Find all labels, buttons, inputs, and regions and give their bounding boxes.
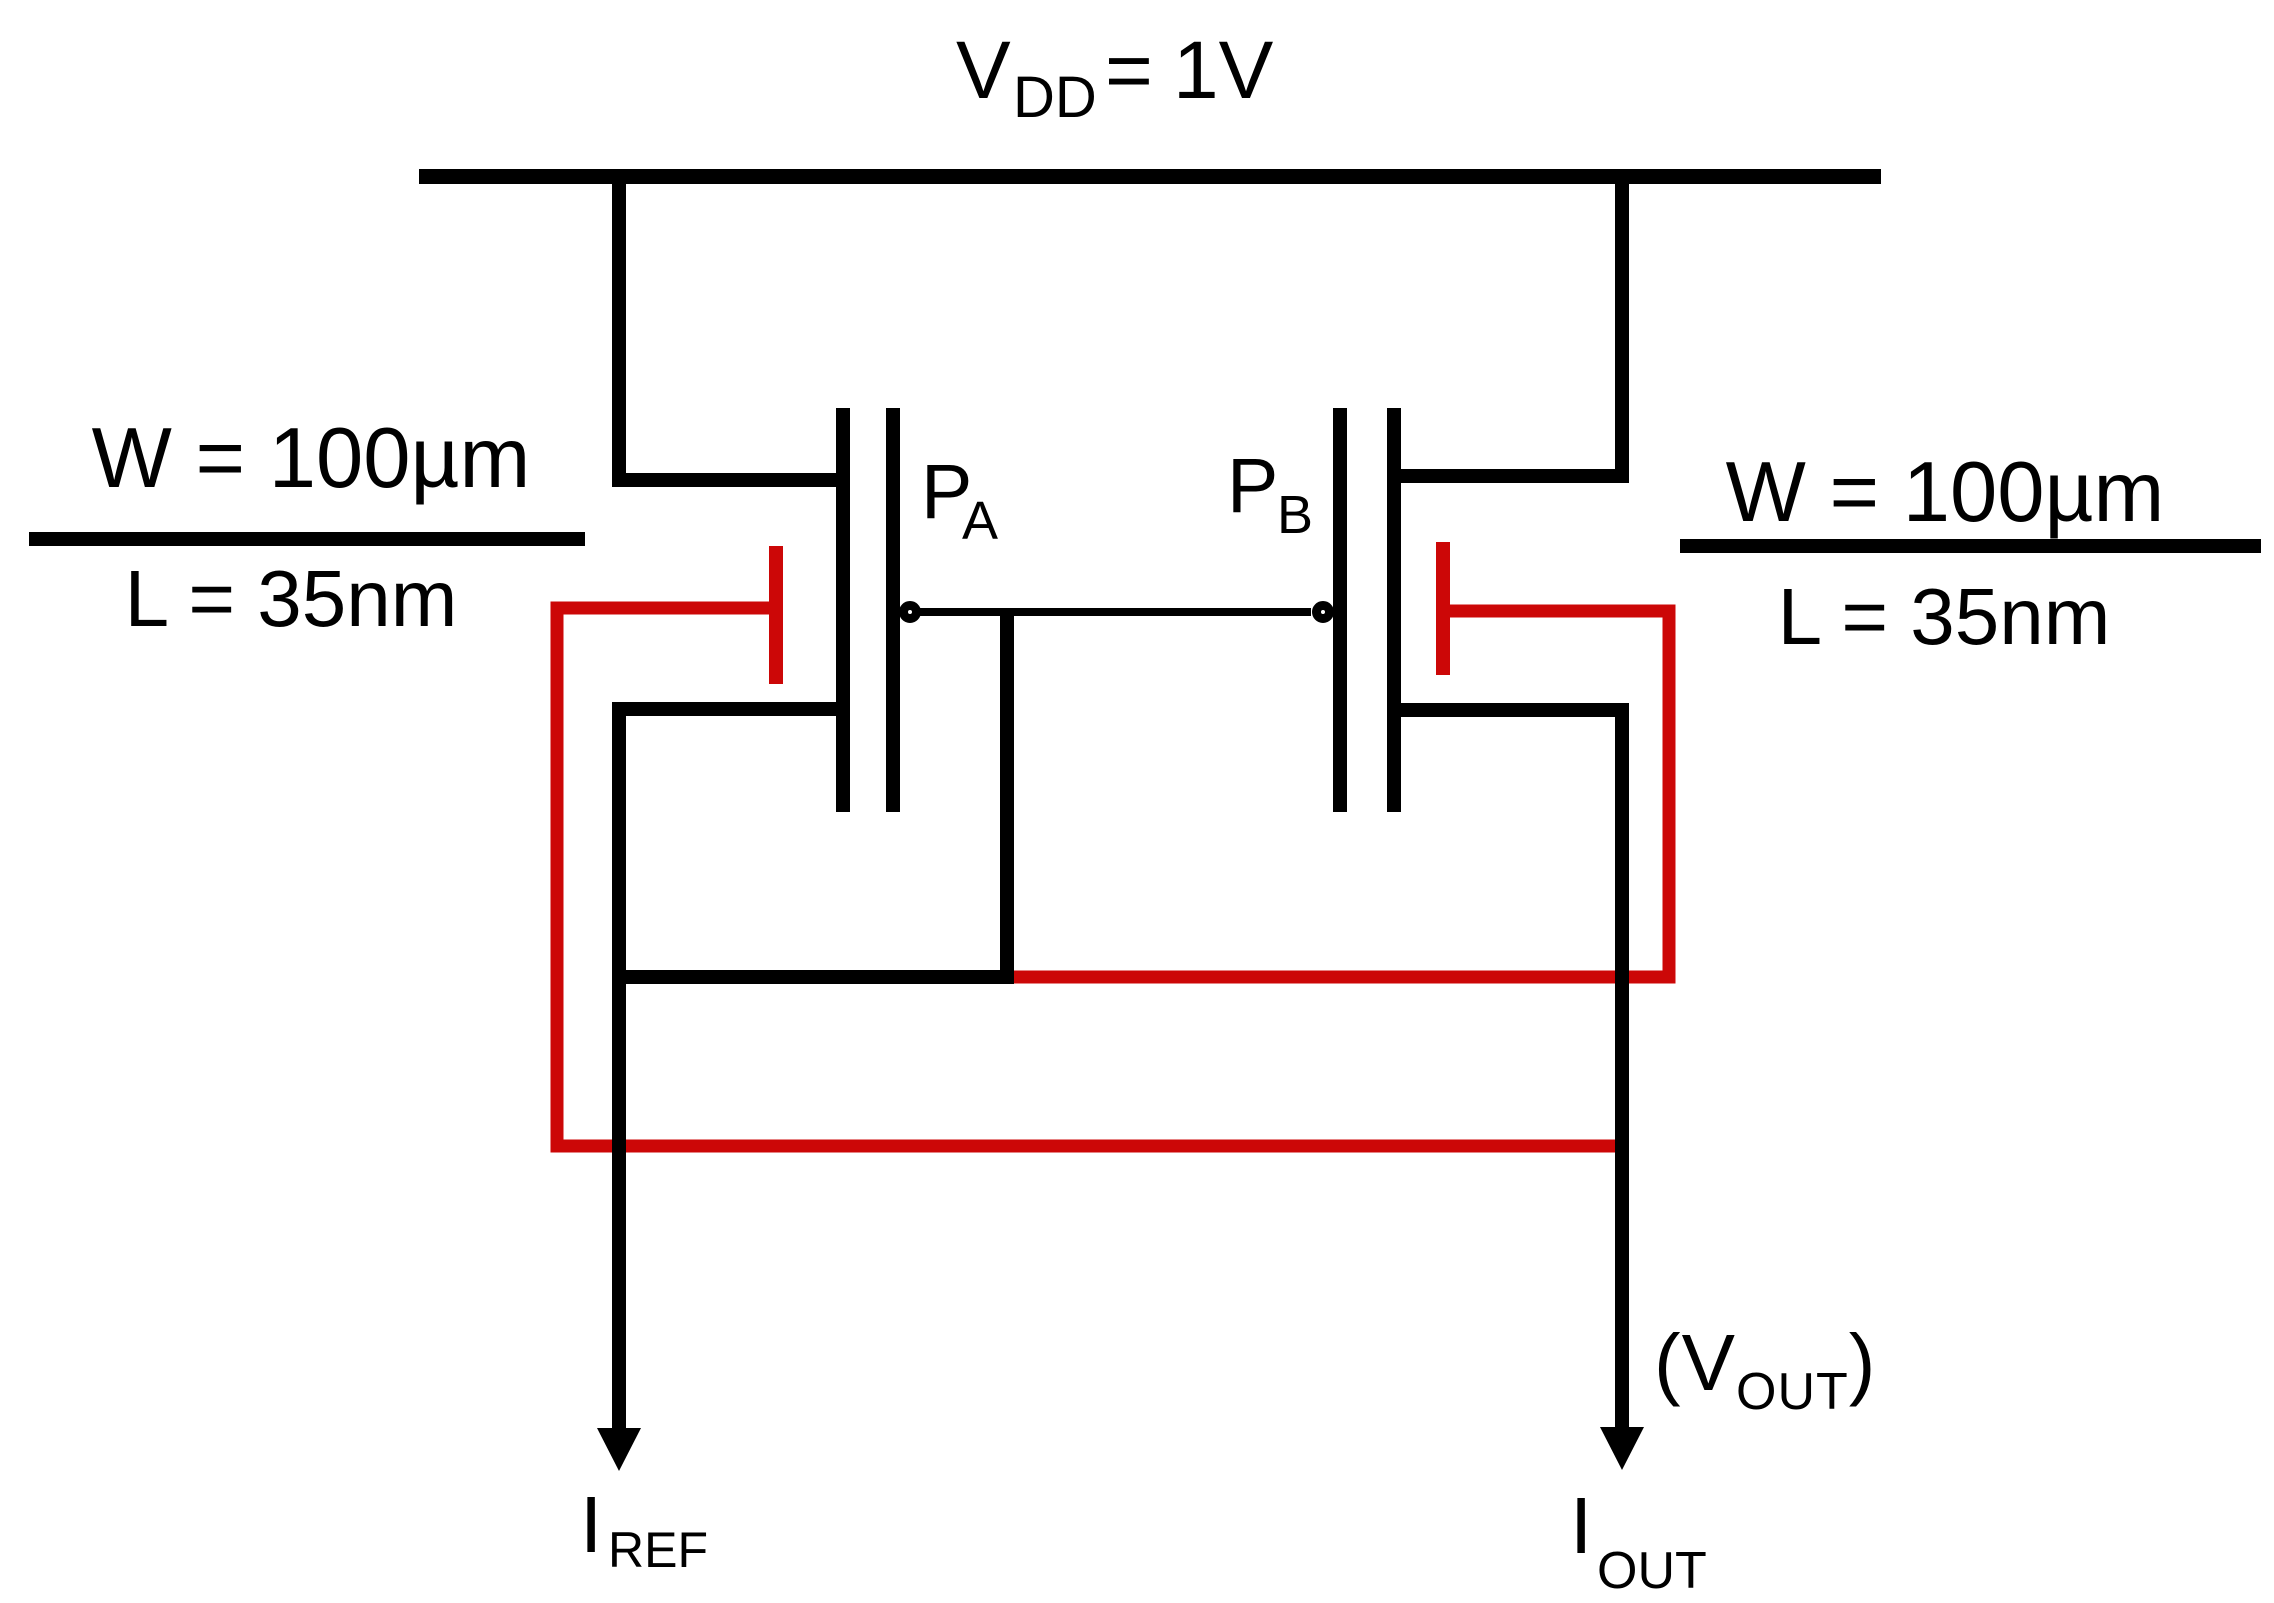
wire: PB drain to IOUT branch xyxy=(1387,710,1622,1431)
svg-text:W = 100µm: W = 100µm xyxy=(92,411,531,506)
arrowhead IOUT xyxy=(1600,1427,1644,1470)
svg-text:1V: 1V xyxy=(1173,25,1274,116)
svg-text:I: I xyxy=(1570,1481,1592,1570)
transistor PA channel plate xyxy=(836,408,850,812)
wire: drain node A horizontal xyxy=(612,970,1014,984)
fraction bar (left) xyxy=(29,532,585,546)
arrowhead IREF xyxy=(597,1428,641,1471)
transistor PB gate bubble xyxy=(1317,606,1330,619)
svg-text:L = 35nm: L = 35nm xyxy=(125,554,458,643)
wire: VDD rail to PA source xyxy=(619,176,850,480)
transistor PB gate plate xyxy=(1333,408,1347,812)
transistor PB channel plate xyxy=(1387,408,1401,812)
wire: VDD rail to PB source xyxy=(1387,176,1622,476)
bulk terminal of PA (red tee bar) xyxy=(769,546,783,684)
svg-text:W = 100µm: W = 100µm xyxy=(1726,445,2165,540)
svg-text:P: P xyxy=(1227,443,1278,529)
svg-text:OUT: OUT xyxy=(1597,1542,1707,1600)
wire: PA drain to IREF branch xyxy=(619,709,850,1432)
transistor PA gate bubble xyxy=(904,606,917,619)
transistor PA gate plate xyxy=(886,408,900,812)
fraction bar (right) xyxy=(1680,539,2261,553)
svg-text:L = 35nm: L = 35nm xyxy=(1778,572,2111,661)
wire: gate of PA to gate of PB xyxy=(919,608,1311,616)
svg-text:=: = xyxy=(1105,25,1153,116)
svg-text:REF: REF xyxy=(608,1522,708,1578)
wire: PB bulk to drain node A (red) xyxy=(1007,611,1669,977)
wire: PA bulk to IOUT node (red) xyxy=(557,608,1628,1146)
svg-text:B: B xyxy=(1277,485,1313,545)
svg-text:A: A xyxy=(962,491,998,551)
svg-text:I: I xyxy=(580,1480,602,1569)
wire: PA gate-drain connection vertical xyxy=(1000,612,1014,983)
bulk terminal of PB (red tee bar) xyxy=(1436,542,1450,675)
svg-text:DD: DD xyxy=(1013,65,1097,130)
node VDD: power rail xyxy=(419,169,1881,184)
svg-text:V: V xyxy=(956,25,1011,116)
